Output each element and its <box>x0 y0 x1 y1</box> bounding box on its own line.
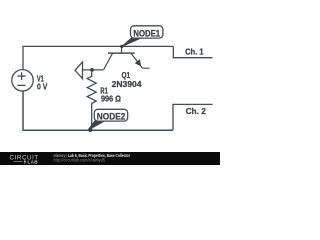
scope channel terminal Ch.1 (step symbol) <box>173 46 212 57</box>
svg-text:LAB: LAB <box>28 160 39 165</box>
resistor R1 <box>87 70 96 130</box>
svg-text:996 Ω: 996 Ω <box>101 95 121 104</box>
svg-text:Ch. 2: Ch. 2 <box>186 106 206 116</box>
junction: Q1 base on top rail <box>120 45 123 48</box>
wire: V1 minus terminal down left rail and across bottom rail to Ch.2 step <box>23 91 173 130</box>
triangle probe flag at collector node <box>75 62 83 79</box>
svg-text:NODE1: NODE1 <box>133 28 160 38</box>
wire: flag through collector node to Q1 collector <box>83 69 104 71</box>
voltage source V1 <box>12 70 33 91</box>
node flag NODE1 (named node on top rail) <box>122 26 163 47</box>
svg-text:Q1: Q1 <box>122 71 131 80</box>
node flag NODE2 (named node on bottom rail) <box>88 109 128 130</box>
svg-text:http://circuitlab.com/c/uw6yd5: http://circuitlab.com/c/uw6yd5 <box>54 158 106 163</box>
wire: V1 plus terminal up left rail and across top rail to Ch.1 step <box>23 46 173 69</box>
svg-text:NODE2: NODE2 <box>97 111 126 121</box>
junction: R1 bottom on bottom rail <box>88 128 92 132</box>
svg-text:0 V: 0 V <box>37 83 48 92</box>
scope channel terminal Ch.2 (step symbol) <box>173 104 213 130</box>
footer CircuitLab logo <box>10 155 39 165</box>
svg-text:2N3904: 2N3904 <box>112 80 142 89</box>
svg-text:Ch. 1: Ch. 1 <box>185 46 204 56</box>
junction: collector node (flag / R1 top / Q1 collector) <box>90 68 94 72</box>
transistor Q1 (NPN 2N3904, base up, collector left, emitter right with arrow) <box>104 47 150 70</box>
footer bar <box>0 152 220 165</box>
